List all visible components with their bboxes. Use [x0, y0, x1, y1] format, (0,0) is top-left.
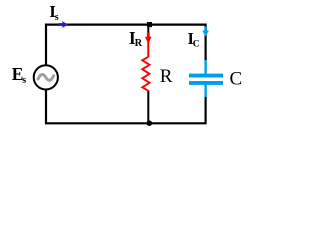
wire outer loop (top rail, left rail with gap for source, right rail, bottom rail) [46, 25, 206, 66]
capacitor C bottom plate [189, 81, 223, 85]
arrow IR current arrow (red, down) [147, 33, 150, 38]
arrow IC current arrow (cyan, down) [204, 27, 207, 32]
wire capacitor top lead (cyan) [204, 60, 206, 75]
svg-text:R: R [160, 66, 173, 87]
capacitor C top plate [189, 74, 223, 78]
wire red lead from arrow to resistor [147, 42, 149, 57]
source Es circle [34, 65, 58, 89]
svg-text:R: R [135, 38, 143, 49]
wire resistor branch upper (black) [147, 25, 149, 34]
source sine wave [38, 74, 54, 80]
wire resistor branch lower (black) [147, 91, 149, 123]
node junction square on top rail at resistor branch [147, 22, 152, 27]
node junction dot on bottom rail at resistor branch [147, 120, 153, 126]
svg-text:C: C [230, 69, 243, 90]
svg-text:s: s [22, 75, 26, 86]
wire capacitor bottom lead (cyan) [204, 85, 206, 98]
resistor R zigzag [142, 57, 149, 91]
arrow Is current arrow (blue, right) [58, 23, 63, 26]
wire bottom loop [46, 89, 206, 123]
svg-text:s: s [55, 12, 59, 23]
svg-text:C: C [193, 39, 200, 49]
